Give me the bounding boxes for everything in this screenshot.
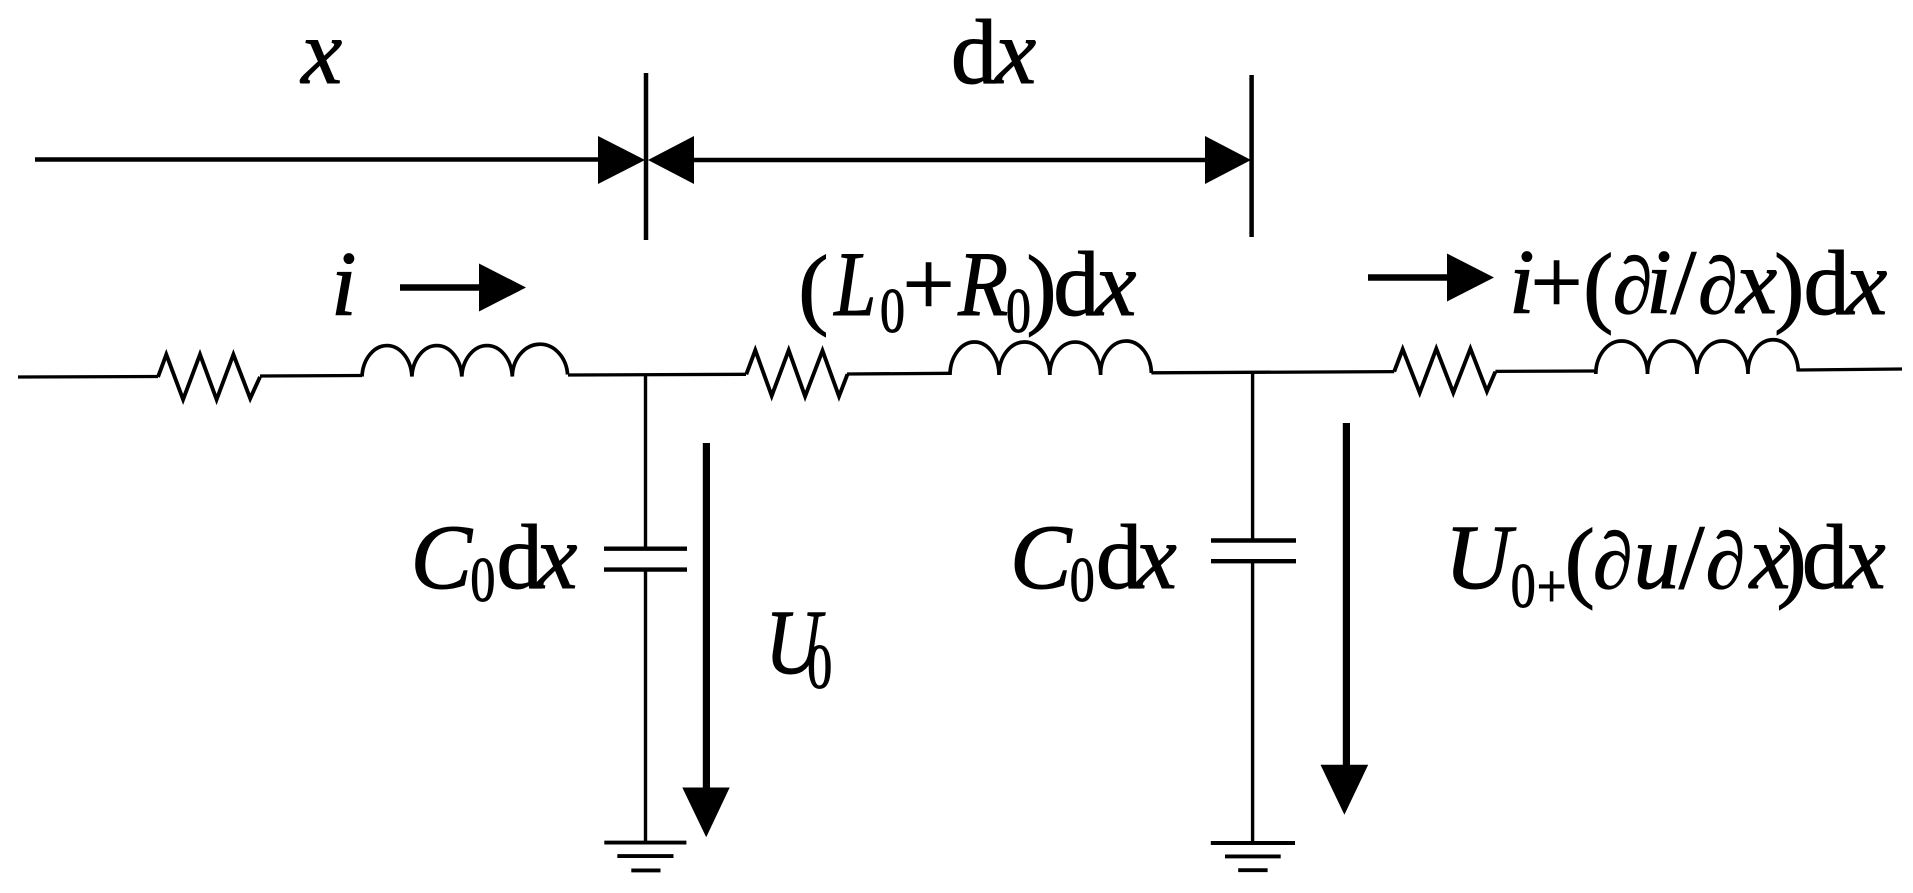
capacitor C1 plates (604, 549, 687, 570)
svg-text:(∂u/∂x)dx: (∂u/∂x)dx (1565, 506, 1886, 610)
wire right lead from L3 (1798, 369, 1902, 370)
svg-text:+: + (903, 233, 955, 335)
svg-text:0: 0 (1070, 545, 1095, 615)
svg-text:0: 0 (470, 545, 495, 615)
svg-text:dx: dx (497, 506, 578, 608)
capacitor C2 plates (1211, 541, 1296, 562)
resistor 1 (158, 355, 260, 400)
arrowhead right at tick 2 (1205, 136, 1251, 184)
svg-text:i: i (331, 233, 357, 335)
svg-text:+: + (1537, 553, 1567, 621)
dimension line for dx (690, 158, 1215, 163)
label dx (top dimension) (951, 1, 1036, 103)
tick mark 1 (644, 73, 649, 240)
wire R3 to inductor L3 (1495, 369, 1595, 373)
arrowhead left at tick 1 (648, 136, 694, 184)
svg-text:U: U (1445, 506, 1517, 608)
node A wire down to capacitor 1 (644, 375, 647, 547)
wire L2 through node B to resistor R3 (1151, 372, 1394, 373)
current arrow i+di (1368, 254, 1494, 302)
label i+(di/dx)dx (1509, 231, 1887, 335)
label C0dx (capacitor 2) (1010, 506, 1177, 615)
inductor 2 (950, 341, 1151, 375)
label C0dx (capacitor 1) (411, 506, 578, 615)
label i (current) (331, 233, 357, 335)
svg-text:C: C (411, 506, 474, 608)
label x (top dimension) (299, 1, 342, 103)
tick mark 2 (1249, 75, 1254, 237)
svg-text:C: C (1010, 506, 1073, 608)
label (L0+R0)dx (798, 233, 1136, 347)
svg-text:x: x (993, 1, 1036, 103)
svg-text:(: ( (798, 238, 828, 337)
svg-text:)dx: )dx (1027, 233, 1137, 337)
label U0+(du/dx)dx (1445, 506, 1886, 621)
svg-text:i+(∂i/∂x)dx: i+(∂i/∂x)dx (1509, 231, 1887, 335)
wire capacitor 2 to ground (1251, 563, 1254, 843)
current arrow i (400, 264, 526, 312)
ground 1 (604, 843, 686, 871)
wire left lead to resistor R1 (18, 375, 158, 379)
svg-text:dx: dx (1096, 506, 1177, 608)
inductor 1 (362, 344, 568, 376)
label U0 (765, 592, 832, 703)
wire R2 to inductor L2 (847, 372, 950, 376)
dimension line for x (35, 157, 620, 162)
resistor 2 (746, 350, 847, 396)
svg-text:0: 0 (1511, 551, 1536, 621)
svg-text:R: R (957, 233, 1008, 335)
svg-text:d: d (951, 1, 997, 103)
arrowhead right at tick 1 (598, 136, 645, 184)
wire capacitor 1 to ground (644, 572, 647, 843)
inductor 3 (1596, 340, 1799, 374)
svg-text:0: 0 (807, 632, 832, 702)
svg-text:L: L (833, 234, 876, 336)
resistor 3 (1394, 349, 1495, 393)
svg-text:0: 0 (880, 276, 905, 346)
ground 2 (1211, 843, 1295, 870)
voltage arrow U0 (682, 443, 729, 837)
node B wire down to capacitor 2 (1251, 372, 1254, 539)
wire R1 to inductor L1 (260, 374, 362, 378)
wire L1 through node A to resistor R2 (568, 373, 746, 377)
voltage arrow U0+du (1321, 423, 1369, 815)
svg-text:x: x (299, 1, 342, 103)
